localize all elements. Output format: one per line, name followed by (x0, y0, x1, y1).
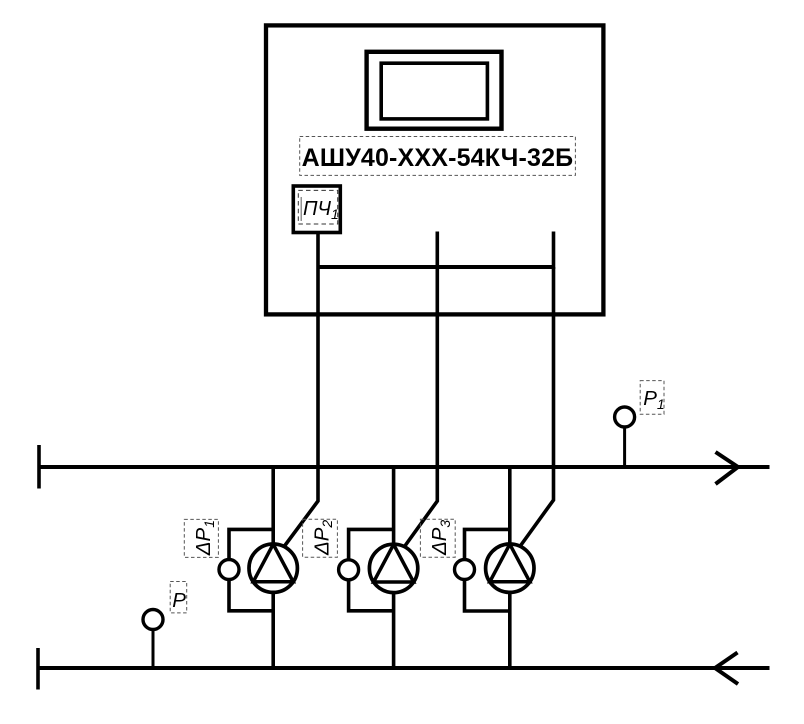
sensor ΔP3 bulb (455, 560, 475, 580)
label ΔP1 (184, 519, 218, 557)
supply pipe end tick (37, 445, 41, 489)
frequency converter box ПЧ1 (293, 186, 340, 233)
pump 1 branch pipe (271, 467, 275, 668)
return pipe (bottom) (38, 666, 770, 670)
label ΔP2 (303, 519, 338, 557)
supply pipe flow arrow (716, 452, 739, 484)
label P1 (640, 381, 664, 415)
pump 2 circle (369, 544, 417, 592)
sensor ΔP1 bulb (219, 560, 239, 580)
control cabinet U1 (266, 25, 603, 314)
display outer frame (367, 52, 502, 129)
svg-text:P: P (172, 589, 186, 612)
cable wire 2 to pump 2 (405, 267, 438, 547)
pump 1 impeller triangle (253, 544, 293, 582)
pump 2 bypass loop (349, 529, 394, 610)
label P (170, 582, 187, 613)
text cursor artifact (300, 197, 302, 221)
label ΔP3 (420, 519, 455, 557)
sensor P stem (152, 628, 155, 668)
display inner screen (381, 63, 487, 119)
cable wire 3 to pump 3 (521, 267, 554, 545)
pump 3 bypass loop (465, 529, 510, 611)
pump 1 circle (249, 544, 297, 592)
pump 2 impeller triangle (374, 544, 414, 582)
svg-text:АШУ40-ХХХ-54КЧ-32Б: АШУ40-ХХХ-54КЧ-32Б (302, 144, 574, 172)
pump 2 branch pipe (392, 467, 396, 668)
pump 1 bypass loop (229, 529, 273, 610)
sensor ΔP2 bulb (339, 560, 359, 580)
sensor P1 stem (623, 426, 626, 467)
cabinet name label box (300, 137, 576, 176)
sensor P bulb (143, 610, 163, 630)
return pipe end tick (36, 648, 40, 690)
return pipe flow arrow (715, 653, 738, 685)
bus stub wire 3 (552, 232, 556, 270)
bus stub wire 2 (435, 232, 439, 270)
cable wire 1 from ПЧ1 to pump 1 (285, 232, 319, 546)
pump 3 circle (486, 544, 534, 592)
control bus line inside cabinet (318, 265, 554, 269)
supply pipe (top) (39, 465, 770, 469)
sensor P1 bulb (615, 407, 635, 427)
pump 3 impeller triangle (490, 544, 530, 582)
pump 3 branch pipe (508, 467, 512, 668)
